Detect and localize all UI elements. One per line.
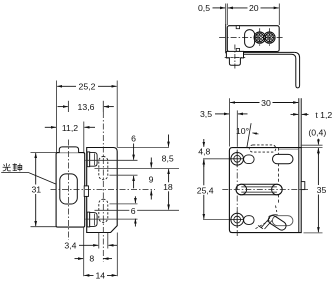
svg-text:3,5: 3,5 xyxy=(200,109,212,119)
svg-text:31: 31 xyxy=(31,185,41,195)
dim 31 xyxy=(35,153,37,226)
wire: bracket bottom ext right xyxy=(304,232,323,234)
svg-text:13,6: 13,6 xyxy=(78,102,95,112)
wire: flange top ext xyxy=(301,144,323,146)
wire: ext bracket left edge up xyxy=(229,98,231,146)
notch top xyxy=(236,26,239,29)
rotated slot bottom right: normal pos (gray) xyxy=(272,216,293,226)
dim 11,2 xyxy=(45,126,56,128)
slot 1 (dashed obround) xyxy=(99,157,108,180)
dim 8 xyxy=(75,258,84,260)
svg-text:(0,4): (0,4) xyxy=(308,128,326,138)
rotated slot bottom right: rotated pos xyxy=(267,214,288,232)
screw 2 flange xyxy=(87,212,90,227)
dim 20 xyxy=(228,7,279,9)
label optical axis (kanji drawn as strokes) xyxy=(3,163,22,171)
lens xyxy=(60,174,78,204)
middle long slot xyxy=(236,184,282,195)
dim 35 xyxy=(317,148,319,232)
flange lower edge seen in front view xyxy=(279,148,299,150)
obround right of hole1 xyxy=(244,155,255,164)
knurled screw head 2 xyxy=(260,28,279,46)
wire: ext line 31 top xyxy=(31,151,57,153)
svg-text:25,2: 25,2 xyxy=(79,82,96,92)
svg-text:11,2: 11,2 xyxy=(62,123,78,133)
bracket front face line xyxy=(298,148,300,233)
wire: ext right edge up a xyxy=(298,98,300,147)
wire: ext slot right edge down xyxy=(107,233,109,249)
wire: bracket top ext right xyxy=(301,147,322,149)
bend line (dashed) xyxy=(278,148,280,203)
obround right of hole2 xyxy=(244,216,255,225)
centerline optical axis horizontal xyxy=(51,189,156,191)
svg-text:25,4: 25,4 xyxy=(197,185,214,195)
obround hole top view xyxy=(245,30,255,48)
dim 18 xyxy=(168,169,170,210)
thumbscrew centerline vertical xyxy=(234,45,236,71)
leader for optical axis xyxy=(1,172,29,174)
sensor body xyxy=(56,153,85,228)
hole 2 xyxy=(231,213,244,226)
svg-text:20: 20 xyxy=(249,3,259,13)
dim 13,6 xyxy=(58,106,68,108)
svg-text:18: 18 xyxy=(163,182,173,192)
slot 2 (dashed obround) xyxy=(99,199,108,222)
wire: ext hole1 centerline up xyxy=(236,110,238,146)
wire: ext line 31 bottom xyxy=(31,226,59,228)
L bracket rear plate edge xyxy=(225,24,227,53)
svg-text:4,8: 4,8 xyxy=(198,147,210,157)
gray line slot2 upper center xyxy=(110,203,138,205)
knurled screw head 1 xyxy=(250,28,269,46)
L bracket bent leg xyxy=(244,52,300,88)
bracket top ext right xyxy=(117,146,169,148)
sensor top view xyxy=(227,26,279,52)
thumbscrew centerline horizontal xyxy=(225,57,246,59)
svg-text:6: 6 xyxy=(131,134,136,144)
dim 25,4 xyxy=(203,160,205,167)
L bracket horizontal plate top face xyxy=(226,51,295,53)
screw 2 head xyxy=(90,213,97,227)
hole1 center ext left xyxy=(203,158,229,160)
svg-text:8: 8 xyxy=(89,254,94,264)
notch bottom xyxy=(236,49,239,52)
centerline axis horizontal xyxy=(222,189,308,191)
dim t 1,2 xyxy=(291,113,299,115)
screw line top xyxy=(86,159,138,161)
screw 1 head xyxy=(90,152,97,166)
wire: ext line interface up (11,2) xyxy=(83,122,85,153)
screw 1 flange xyxy=(87,152,90,167)
bracket plate (side) xyxy=(87,148,118,233)
centerline holes vertical xyxy=(236,150,238,237)
wire: ext slot left edge down xyxy=(98,233,100,249)
svg-text:9: 9 xyxy=(149,175,154,185)
slot top right xyxy=(273,154,294,163)
wire: ext line bracket right edge up xyxy=(116,81,118,148)
centerline screw 1 vertical xyxy=(259,28,261,47)
tab on right edge xyxy=(301,182,305,190)
rotation scribbles xyxy=(261,218,270,228)
svg-text:8,5: 8,5 xyxy=(162,154,174,164)
thumbscrew head below xyxy=(229,58,240,65)
top-center dashed obround (flange slot) xyxy=(249,145,275,152)
wire: ext sensor rear face up xyxy=(226,4,228,26)
centerline lens vertical xyxy=(67,101,69,112)
gray line slot1 lower center xyxy=(110,174,138,176)
wire: ext sensor front face up xyxy=(278,4,280,26)
wire: ext right edge up b xyxy=(300,98,302,147)
dim 30 xyxy=(230,102,298,104)
svg-text:3,4: 3,4 xyxy=(64,241,76,251)
svg-text:35: 35 xyxy=(317,185,327,195)
hole2 center ext left xyxy=(203,219,229,221)
dim 25,2 xyxy=(57,85,116,87)
centerline screw 2 vertical xyxy=(268,28,270,47)
wire: ext interface down xyxy=(83,227,85,276)
dim 14 xyxy=(84,274,116,276)
wire: ext line body left edge up xyxy=(56,81,58,153)
dim 4,8 xyxy=(203,139,205,147)
svg-text:10°: 10° xyxy=(236,126,249,136)
wire: ext bracket right down xyxy=(116,233,118,277)
screw line bottom xyxy=(86,218,138,220)
centerline horizontal top view xyxy=(219,37,283,39)
slot2 middle line xyxy=(95,209,180,211)
centerline slot vertical xyxy=(102,101,104,112)
wire: ext bracket rear face up xyxy=(225,4,227,25)
dim 8,5 xyxy=(168,135,170,147)
dim 9 xyxy=(150,158,152,168)
bracket plate outline xyxy=(229,148,301,233)
svg-text:14: 14 xyxy=(95,271,105,281)
thumbscrew below plate: flange xyxy=(226,51,243,58)
hole 1 xyxy=(231,153,244,166)
tab at interface xyxy=(84,186,88,197)
slot1 middle line xyxy=(95,167,180,169)
sensor top tab xyxy=(59,147,78,153)
svg-text:30: 30 xyxy=(261,98,271,108)
rotation dashes xyxy=(256,221,270,229)
svg-text:t 1,2: t 1,2 xyxy=(315,110,332,120)
svg-text:0,5: 0,5 xyxy=(198,3,210,13)
svg-text:6: 6 xyxy=(131,206,136,216)
dim 6 bottom xyxy=(134,196,136,203)
